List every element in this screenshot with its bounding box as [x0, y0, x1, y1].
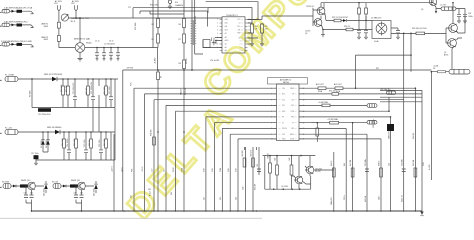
ground CX2 — [103, 59, 106, 61]
transistor Q9 — [295, 176, 303, 184]
wire IC2 pin8 L — [222, 128, 276, 211]
svg-text:Q5: Q5 — [421, 9, 423, 11]
wire top Q emitter — [433, 0, 436, 13]
svg-text:C12 100n: C12 100n — [109, 86, 111, 94]
resistor R7 chainB — [183, 34, 186, 43]
wire mid vertical x259 — [258, 147, 260, 175]
svg-text:DC FAN 12V: DC FAN 12V — [371, 17, 382, 20]
wire IC2 pin2 L — [145, 94, 277, 211]
capacitor C21 — [212, 38, 215, 42]
svg-text:C11 1000u/10V: C11 1000u/10V — [91, 81, 93, 94]
wire chain A x158 — [153, 0, 158, 70]
svg-text:R26 330 Q6 C945: R26 330 Q6 C945 — [412, 28, 427, 30]
svg-text:L1 OUT: L1 OUT — [440, 5, 447, 7]
wire bc box top — [263, 155, 316, 157]
regulator Q11 blc2 — [78, 182, 86, 190]
capacitor CX4 — [116, 53, 120, 55]
wire IC2 pin3 L — [154, 100, 277, 211]
capacitor C11 — [91, 97, 95, 100]
svg-text:1IN+: 1IN+ — [282, 88, 285, 90]
svg-text:2IN+: 2IN+ — [237, 26, 240, 28]
capacitor C32 drop367 — [365, 169, 369, 172]
label IC2 pin numbers — [271, 88, 304, 141]
wire feedback y11 — [140, 11, 208, 27]
wire nested y97 — [380, 96, 422, 98]
svg-text:R17 220: R17 220 — [104, 139, 106, 146]
fuse F2 black body — [17, 24, 23, 27]
svg-text:R16 1K: R16 1K — [89, 139, 91, 146]
resistor R42 bc — [290, 165, 293, 175]
svg-text:R52 10K: R52 10K — [255, 183, 257, 190]
svg-text:13: 13 — [248, 30, 250, 32]
wire IC2 r pin7 — [299, 122, 367, 124]
wire bc verticals — [245, 147, 257, 150]
svg-text:VREF: VREF — [290, 88, 294, 90]
scan border bottom — [0, 217, 262, 219]
resistor R5 chainA low — [157, 72, 160, 80]
node snubber taps — [96, 47, 98, 49]
svg-text:RT: RT — [225, 37, 227, 39]
wire Q2 gnd — [322, 30, 324, 35]
svg-text:+5 (M) R33A: +5 (M) R33A — [318, 101, 328, 104]
svg-text:16: 16 — [303, 111, 305, 113]
svg-text:16: 16 — [248, 19, 250, 21]
svg-text:C34 100n: C34 100n — [402, 159, 404, 166]
label extra verticals — [131, 130, 431, 205]
ground rail2 — [34, 163, 38, 165]
svg-text:R42: R42 — [289, 157, 291, 160]
node rail1 taps — [31, 78, 33, 80]
svg-text:V12: V12 — [291, 99, 294, 101]
node bus joints — [31, 210, 33, 212]
label IC1 pin numbers — [217, 19, 250, 49]
svg-text:14: 14 — [248, 26, 250, 28]
svg-text:C13 2200u/10V: C13 2200u/10V — [38, 114, 51, 116]
IC2 left pin stubs — [274, 88, 277, 139]
svg-text:KA431 Q10: KA431 Q10 — [21, 179, 30, 182]
fan M1 rotor — [376, 23, 387, 34]
wire snub x359 x366 — [359, 3, 366, 37]
wire top link y14 — [150, 13, 184, 15]
wire mid vertical x114 — [113, 134, 115, 211]
svg-text:R44 4.7K: R44 4.7K — [250, 149, 252, 157]
svg-text:2200u/16V: 2200u/16V — [331, 196, 333, 205]
svg-text:R6: R6 — [178, 24, 180, 26]
wire bc inner drops — [270, 156, 292, 190]
ground C26 — [396, 37, 400, 39]
svg-text:12: 12 — [303, 134, 305, 136]
svg-text:2 AC INPUT(WHITE) FL2: 2 AC INPUT(WHITE) FL2 — [4, 20, 28, 23]
ground R21 — [260, 44, 264, 46]
bridge rectifier D1 — [75, 43, 85, 53]
wire out x411 down — [410, 33, 412, 71]
svg-text:Q2: Q2 — [305, 33, 307, 35]
resistor R17 — [105, 139, 108, 148]
svg-text:C71: C71 — [128, 7, 131, 9]
svg-text:RS405: RS405 — [86, 43, 92, 45]
svg-text:KA431 Q11: KA431 Q11 — [71, 179, 80, 182]
capacitor C25 snub — [364, 30, 368, 33]
wire Qpair right base — [445, 28, 447, 43]
ground C27 — [457, 21, 461, 23]
svg-text:R15 470: R15 470 — [74, 139, 76, 146]
wire chain A lower — [157, 70, 159, 211]
wire mains N drop — [75, 12, 77, 18]
wire rail1 +5V — [18, 78, 118, 80]
wire drop x403 — [403, 33, 405, 211]
resistor R27 inline — [438, 71, 446, 73]
wire IC1 right drops — [248, 23, 263, 44]
svg-text:ALR OUT: ALR OUT — [334, 83, 343, 86]
node rail y70 crossings — [157, 69, 159, 71]
svg-text:E1: E1 — [225, 47, 227, 49]
IC1 inner pin rows — [224, 20, 243, 51]
svg-text:D7 SB360: D7 SB360 — [41, 140, 43, 148]
diode D13 blc1 — [44, 185, 48, 189]
IC1 left pin stubs — [220, 20, 222, 51]
svg-text:560K: 560K — [44, 39, 49, 41]
capacitor C34 blc1 — [24, 195, 28, 198]
svg-text:C17 100n: C17 100n — [31, 153, 39, 155]
svg-text:P2 +12V: P2 +12V — [5, 127, 13, 129]
svg-text:1IN-: 1IN- — [225, 23, 228, 25]
wire bridge output — [85, 47, 158, 49]
svg-text:C15 470u: C15 470u — [84, 139, 86, 147]
wire snubber drops — [96, 48, 98, 59]
wire loop y1.7 — [206, 2, 258, 20]
svg-text:17: 17 — [303, 105, 305, 107]
wire rail2 +12V — [18, 131, 115, 133]
svg-text:C16 100n: C16 100n — [99, 139, 101, 147]
capacitor C24 snub — [357, 30, 361, 33]
label IC2 pins left — [282, 88, 287, 141]
wire drop x333 — [333, 152, 335, 211]
plug J2 — [75, 5, 78, 12]
wire link y55 — [356, 55, 412, 88]
wire IC2 r pin8 — [299, 128, 346, 211]
svg-text:C32 100n: C32 100n — [365, 159, 367, 166]
wire mains L drop — [59, 12, 75, 48]
svg-text:C40 n: C40 n — [378, 196, 380, 200]
svg-text:R10 4.7K: R10 4.7K — [61, 84, 63, 92]
wire IC2 r pin3 — [299, 99, 404, 101]
capacitor C16 — [99, 150, 103, 153]
svg-text:C35: C35 — [30, 193, 33, 195]
wire feedback y7.7 — [133, 8, 208, 18]
capacitor C28 — [463, 15, 467, 17]
resistor R60 mid vertical — [153, 137, 156, 145]
wire IC2 r pin6 — [299, 116, 391, 118]
svg-text:R8 47K: R8 47K — [186, 57, 188, 64]
svg-text:10: 10 — [271, 139, 273, 141]
resistor R21 IC1 right — [261, 24, 264, 33]
svg-text:2IN-: 2IN- — [238, 30, 241, 32]
pill CN9 — [387, 91, 396, 94]
capacitor C14 — [67, 150, 71, 153]
resistor R26 out — [416, 32, 425, 35]
node bc box — [269, 155, 271, 157]
wire Qr2 emitter down — [452, 47, 454, 70]
capacitor CX1 — [95, 53, 99, 55]
svg-text:3 FG(GREEN/YELLOW) E1 GND: 3 FG(GREEN/YELLOW) E1 GND — [1, 41, 32, 43]
capacitor C15 — [84, 150, 88, 153]
svg-text:GND2: GND2 — [290, 134, 294, 136]
label IC1 pins left — [225, 19, 229, 52]
ground bridge — [78, 59, 83, 61]
svg-text:R14 2.2K: R14 2.2K — [62, 138, 64, 146]
wire IC2 pin7 L — [214, 123, 276, 211]
svg-text:C2 470u/200V: C2 470u/200V — [104, 44, 116, 46]
resistor R8 chainB low — [183, 60, 186, 69]
svg-text:C14 1000u: C14 1000u — [67, 138, 69, 147]
svg-text:1 AC INPUT(BLACK) FL1 T5A: 1 AC INPUT(BLACK) FL1 T5A — [4, 7, 33, 10]
svg-text:CT: CT — [225, 33, 227, 35]
left edge tick marks — [0, 13, 2, 188]
wire blc2 — [61, 181, 96, 211]
svg-text:R13 100: R13 100 — [104, 87, 106, 94]
resistor R50 blc1 — [20, 184, 28, 187]
svg-text:OUTB: OUTB — [290, 139, 294, 141]
transformer T1 core — [192, 20, 195, 45]
svg-text:AZ7500BP IC2: AZ7500BP IC2 — [280, 79, 291, 82]
wire IC2 r pin4 — [299, 104, 367, 106]
wire rail1 gnd bar — [32, 107, 115, 109]
node rail2 taps — [42, 131, 44, 133]
svg-text:AC 250V: AC 250V — [72, 0, 80, 3]
diode D6 schottky — [55, 130, 60, 134]
wire fg symbol — [169, 3, 171, 6]
capacitor C33 drop403 — [402, 169, 406, 172]
pill CN7 — [367, 104, 377, 108]
wire mid vertical x253 — [252, 147, 254, 211]
svg-text:ALR OUT: ALR OUT — [316, 83, 325, 86]
svg-text:OP: OP — [292, 94, 294, 96]
wire bridge top feed — [79, 18, 81, 43]
svg-text:R57: R57 — [131, 195, 133, 198]
wire mid vertical x245 — [244, 147, 246, 211]
resistor R44 drop253 — [252, 158, 255, 167]
svg-text:R/on: R/on — [282, 94, 285, 96]
node blc joints — [25, 185, 27, 187]
resistor R45 drop333 — [332, 168, 335, 177]
svg-text:+12V S: +12V S — [142, 167, 144, 172]
transformer T1 windings — [191, 21, 197, 44]
wire loop y7.6 — [208, 8, 252, 23]
svg-text:R3: R3 — [151, 24, 153, 26]
wire IC2 pin5 L — [176, 111, 277, 211]
transistor Q5 top — [429, 0, 436, 5]
plug J1 — [58, 5, 61, 12]
capacitor CX2 — [102, 53, 106, 55]
resistor R30 — [318, 87, 326, 90]
connector P4 blc1 — [3, 184, 11, 189]
resistor R23 — [346, 28, 353, 31]
resistor R36 mid — [316, 128, 319, 136]
watermark DELTA COMPU — [120, 0, 356, 226]
svg-text:R27: R27 — [376, 68, 379, 70]
op-amp IC2 supervisor body — [277, 84, 300, 141]
svg-text:V5: V5 — [282, 122, 284, 124]
svg-text:R55 56K: R55 56K — [413, 132, 415, 139]
resistor R22 — [334, 19, 341, 22]
capacitor C26 fan — [396, 31, 400, 34]
svg-text:4700u/16V: 4700u/16V — [388, 130, 390, 139]
svg-text:R53 150: R53 150 — [365, 196, 367, 202]
IC2 right pin stubs — [299, 88, 302, 139]
wire chain B x184 — [183, 0, 185, 211]
svg-text:3.3V: 3.3V — [282, 134, 285, 136]
capacitor C36 blc2 — [74, 195, 78, 198]
svg-text:R40 1K: R40 1K — [267, 152, 269, 158]
thermistor TH1 — [61, 14, 68, 21]
svg-text:13: 13 — [303, 128, 305, 130]
svg-text:R7: R7 — [178, 39, 180, 41]
svg-text:R48 1K: R48 1K — [378, 160, 380, 166]
resistor R33 — [322, 104, 330, 107]
diode D5 schottky — [52, 77, 57, 81]
svg-text:10: 10 — [248, 41, 250, 43]
inductor L3 black body — [17, 43, 23, 46]
ground Q2 — [321, 35, 325, 37]
wire IC1 right pin1 — [248, 16, 314, 20]
ground bus end arrow — [420, 211, 423, 215]
svg-text:CHASSIS: CHASSIS — [175, 4, 184, 7]
wire AC line row1 — [10, 10, 31, 12]
svg-text:REF: REF — [238, 33, 241, 35]
svg-text:+3.3V S: +3.3V S — [112, 166, 114, 172]
svg-text:A733: A733 — [444, 53, 448, 56]
svg-text:19: 19 — [303, 94, 305, 96]
wire rail2 shunt diode drops — [43, 132, 48, 152]
svg-text:DZ1: DZ1 — [148, 189, 151, 191]
svg-text:C36: C36 — [74, 193, 77, 195]
pill CN8 — [367, 121, 377, 125]
svg-text:P6: P6 — [433, 68, 435, 70]
resistor R34 — [330, 121, 339, 124]
diode D7 shunt — [41, 140, 45, 145]
svg-text:C2: C2 — [239, 23, 241, 25]
resistor R47 drop381 — [380, 168, 383, 177]
svg-text:OUT: OUT — [291, 105, 294, 107]
svg-text:PS-ON: PS-ON — [315, 171, 321, 173]
wire rail y70 main — [123, 69, 432, 71]
resistor R4 chainA — [157, 34, 160, 43]
wire Q1 emitter out y16 — [325, 13, 372, 21]
label IC1 pins right — [237, 19, 241, 52]
transistor Q8 — [306, 166, 314, 174]
svg-text:14: 14 — [303, 122, 305, 124]
svg-text:BRIDGE D1 (4A): BRIDGE D1 (4A) — [74, 38, 90, 41]
svg-text:D13 4148: D13 4148 — [44, 189, 46, 196]
svg-text:2IN-: 2IN- — [282, 105, 285, 107]
resistor R16 — [90, 139, 93, 148]
wire IC2 pin9 L — [230, 134, 276, 211]
capacitor C20 IC1 — [203, 40, 210, 48]
earth FG — [168, 0, 171, 3]
wire Qr1 collector top — [452, 3, 454, 24]
transistor Q2 — [314, 19, 322, 27]
svg-text:+B 300V: +B 300V — [155, 57, 157, 64]
connector P1 row1 — [2, 10, 10, 13]
wire blob drop x390 — [390, 117, 392, 211]
connector P5 blc2 — [53, 184, 61, 189]
ground C24 — [357, 37, 361, 39]
diode D8 shunt — [46, 140, 50, 145]
svg-text:R32 10K: R32 10K — [329, 91, 336, 93]
svg-text:P4 5VSB: P4 5VSB — [2, 181, 10, 183]
svg-text:R12 1K: R12 1K — [86, 87, 88, 94]
svg-text:+12 (M) R34A: +12 (M) R34A — [327, 118, 338, 121]
transistor Q1 — [317, 7, 325, 15]
svg-text:AC 250V: AC 250V — [55, 0, 63, 3]
wire IC2 pin6 L — [206, 117, 277, 211]
inductor L1 pill — [441, 7, 456, 10]
svg-text:CSS: CSS — [291, 128, 294, 130]
resistor R15 — [75, 139, 78, 148]
svg-text:+5V RTN: +5V RTN — [126, 68, 134, 70]
wire Qr1 emitter — [457, 15, 466, 33]
svg-text:5VSB: 5VSB — [182, 168, 184, 172]
wire drop x415 — [414, 88, 416, 211]
svg-text:D8 SB360: D8 SB360 — [46, 140, 48, 148]
wire IC2 r pin10 — [299, 139, 381, 211]
connector P3 row3 — [2, 43, 10, 46]
node mains junctions — [75, 17, 77, 19]
svg-text:OPP CAP IN+: OPP CAP IN+ — [380, 88, 391, 91]
svg-text:SBD D5 STPS1045: SBD D5 STPS1045 — [44, 74, 63, 76]
svg-text:R49 100: R49 100 — [413, 160, 415, 166]
resistor R32 — [332, 93, 339, 96]
transistor Q6 — [449, 24, 458, 33]
svg-text:C34: C34 — [24, 193, 27, 195]
wire rail2 drops — [64, 132, 115, 160]
wire fan right — [391, 28, 398, 37]
svg-text:18: 18 — [303, 99, 305, 101]
resistor R11 — [67, 86, 70, 95]
svg-text:R54 4.7K: R54 4.7K — [402, 194, 404, 202]
svg-text:FB12: FB12 — [282, 139, 286, 141]
svg-text:C20 1n/1KV: C20 1n/1KV — [210, 60, 220, 62]
fan M1 frame — [372, 21, 391, 39]
resistor R41 bc — [276, 165, 279, 175]
resistor R43 drop245 — [243, 158, 246, 167]
label bc parts — [242, 149, 291, 167]
wire IC2 pin4 L — [166, 105, 277, 211]
svg-text:VT: VT — [292, 122, 294, 124]
svg-text:PS/ON: PS/ON — [282, 128, 287, 130]
svg-text:R60 10K: R60 10K — [151, 129, 153, 136]
svg-text:C42: C42 — [220, 197, 222, 200]
diode D row2 — [12, 24, 15, 27]
svg-text:R11 330: R11 330 — [66, 85, 68, 92]
resistor R48 drop415 — [414, 168, 417, 177]
wire xfmr verticals — [192, 0, 203, 70]
svg-text:R43 10K: R43 10K — [242, 149, 244, 156]
svg-text:C38 n: C38 n — [243, 186, 245, 190]
capacitor C31 drop259 — [257, 169, 261, 172]
svg-text:11: 11 — [303, 139, 305, 141]
svg-text:C31: C31 — [257, 164, 259, 167]
svg-text:C1 1n: C1 1n — [95, 41, 100, 43]
svg-text:R45 1K: R45 1K — [331, 160, 333, 166]
svg-text:R20: R20 — [255, 26, 258, 28]
wire Q1 collector to top rail — [321, 3, 433, 8]
node IC2 area — [317, 122, 319, 124]
capacitor C35 blc1 — [30, 195, 34, 198]
svg-text:TL494CN IC1: TL494CN IC1 — [226, 15, 238, 17]
wire right rail down — [422, 72, 431, 211]
wire pill L1 — [436, 9, 465, 21]
